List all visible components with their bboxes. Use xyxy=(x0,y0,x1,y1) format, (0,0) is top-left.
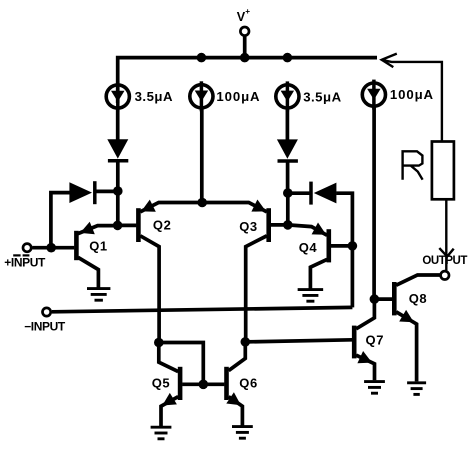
current source 100uA (right) xyxy=(362,80,385,110)
transistor Q6 emitter xyxy=(229,397,243,426)
terminal OUTPUT xyxy=(441,271,449,279)
wire CS3 to D2 xyxy=(286,108,290,141)
svg-text:OUTPUT: OUTPUT xyxy=(422,255,467,267)
terminal +INPUT xyxy=(23,244,31,252)
node I (Q4 base / -input riser) xyxy=(348,241,358,251)
ground under Q5 xyxy=(151,427,172,439)
transistor Q8 collector xyxy=(396,275,440,285)
node A (Q2-base/diode junction upper) xyxy=(113,186,123,196)
wire Q3 base to node F xyxy=(269,223,288,227)
transistor Q1 base bar xyxy=(74,231,79,260)
transistor Q1 emitter xyxy=(78,226,114,234)
svg-text:Q2: Q2 xyxy=(153,218,172,233)
transistor Q1 collector xyxy=(78,257,98,288)
node K (mirror bases) xyxy=(199,380,209,390)
svg-text:Q7: Q7 xyxy=(366,333,385,348)
transistor Q2 emitter xyxy=(140,203,202,212)
wire V+ stub xyxy=(243,36,247,59)
ground under Q8 xyxy=(407,383,426,395)
current source 3.5uA (right) xyxy=(276,81,299,111)
wire node A to node B xyxy=(116,191,120,225)
node E (Q2 collector / Q5) xyxy=(154,338,164,348)
transistor Q2 base bar xyxy=(136,208,141,242)
transistor Q2 emitter arrow (PNP) xyxy=(141,200,156,212)
overbar mark left xyxy=(13,254,20,256)
diode D1 xyxy=(107,139,128,161)
transistor Q3 emitter arrow (PNP) xyxy=(251,200,266,212)
svg-text:Q6: Q6 xyxy=(239,376,258,391)
node J (Q7 collector / Q8 base) xyxy=(370,294,380,304)
ground under Q7 xyxy=(364,382,385,394)
transistor Q7 emitter arrow (NPN) xyxy=(357,351,372,363)
transistor Q7 collector xyxy=(356,299,374,329)
wire D2 to node H xyxy=(286,161,290,193)
label R glyph xyxy=(403,151,423,180)
svg-text:3.5μA: 3.5μA xyxy=(303,89,341,104)
wire R top to rail arrow xyxy=(382,60,442,142)
terminal -INPUT xyxy=(43,308,51,316)
node rail-CS3 junction xyxy=(283,53,293,63)
current source 3.5uA (left) xyxy=(106,82,129,112)
diode D4 xyxy=(311,182,336,205)
wire node E to node K xyxy=(159,343,204,385)
transistor Q7 emitter xyxy=(356,355,374,380)
svg-text:Q1: Q1 xyxy=(89,238,108,253)
svg-text:+INPUT: +INPUT xyxy=(4,255,46,269)
transistor Q4 base bar xyxy=(326,229,331,262)
svg-text:Q3: Q3 xyxy=(239,219,258,234)
svg-text:100μA: 100μA xyxy=(390,87,434,102)
wire D3 anode to +input node xyxy=(51,193,70,248)
transistor Q5 emitter xyxy=(161,397,178,427)
transistor Q2 collector xyxy=(140,236,159,343)
transistor Q7 base bar xyxy=(352,326,357,359)
transistor Q5 base bar xyxy=(178,367,183,400)
arrowhead at rail xyxy=(382,54,397,68)
transistor Q1 emitter arrow (PNP) xyxy=(80,222,95,235)
transistor Q8 emitter arrow (NPN) xyxy=(399,310,414,322)
transistor Q5 collector xyxy=(159,346,178,372)
current source 100uA (center) xyxy=(190,81,213,111)
svg-text:100μA: 100μA xyxy=(216,89,260,104)
svg-text:Q5: Q5 xyxy=(152,376,171,391)
diode D3 xyxy=(69,181,94,204)
ground under Q1 xyxy=(87,289,110,301)
wire node B to Q2 base xyxy=(118,224,137,228)
diode D2 xyxy=(277,139,298,161)
wire R bottom to output xyxy=(445,199,447,270)
wire node G to Q7 base xyxy=(245,340,352,342)
transistor Q3 collector xyxy=(246,236,267,342)
node D (Q2/Q3 emitters) xyxy=(197,198,207,208)
wire Q5-Q6 base link xyxy=(182,382,224,386)
resistor R body xyxy=(432,142,454,200)
svg-text:+: + xyxy=(245,7,250,16)
svg-text:Q4: Q4 xyxy=(299,240,318,255)
wire CS1 to D1 xyxy=(116,108,120,141)
transistor Q6 collector xyxy=(229,342,246,371)
ground under Q4 xyxy=(298,290,324,302)
svg-text:−INPUT: −INPUT xyxy=(24,320,66,334)
node H (Q3-base/diode junction upper) xyxy=(283,188,293,198)
svg-text:Q8: Q8 xyxy=(409,291,428,306)
wire top supply rail xyxy=(118,58,377,103)
wire D3 cathode to node A xyxy=(95,190,118,194)
arrowhead at output xyxy=(439,248,453,256)
power V+ terminal xyxy=(240,27,249,36)
node C (+input junction) xyxy=(46,243,56,253)
transistor Q4 emitter xyxy=(288,225,327,235)
transistor Q8 emitter xyxy=(396,312,416,382)
wire node J to Q8 base xyxy=(374,297,392,301)
wire D1 to node A xyxy=(116,161,120,191)
wire D4 anode down to -input wire xyxy=(336,193,352,307)
wire +INPUT to Q1 base xyxy=(32,246,74,250)
ground under Q6 xyxy=(232,427,253,439)
transistor Q5 emitter arrow (NPN) xyxy=(162,393,177,406)
node B (Q1 emitter / Q2 base) xyxy=(113,221,123,231)
wire Q4 base to node I xyxy=(331,244,353,248)
node F (Q3 base / Q4 emitter) xyxy=(283,220,293,230)
wire CS2 to node D xyxy=(200,108,204,203)
node rail-CS2 junction xyxy=(197,53,207,63)
wire CS4 to node J xyxy=(372,107,376,300)
node rail-V+ junction xyxy=(240,53,250,63)
transistor Q6 emitter arrow (NPN) xyxy=(226,392,241,405)
wire -INPUT to Q4 riser xyxy=(52,307,353,311)
transistor Q8 base bar xyxy=(392,282,397,315)
wire D4 cathode to node H xyxy=(288,191,311,195)
transistor Q4 emitter arrow (PNP) xyxy=(312,223,327,235)
transistor Q6 base bar xyxy=(224,367,229,400)
transistor Q3 emitter xyxy=(202,203,267,212)
overbar mark right xyxy=(23,254,30,256)
node G (Q3/Q6 collectors) xyxy=(241,337,251,347)
transistor Q4 collector xyxy=(310,259,327,289)
power V+ label xyxy=(237,7,251,24)
svg-text:3.5μA: 3.5μA xyxy=(135,89,173,104)
wire node H to node F xyxy=(286,193,290,225)
transistor Q3 base bar xyxy=(266,208,271,242)
